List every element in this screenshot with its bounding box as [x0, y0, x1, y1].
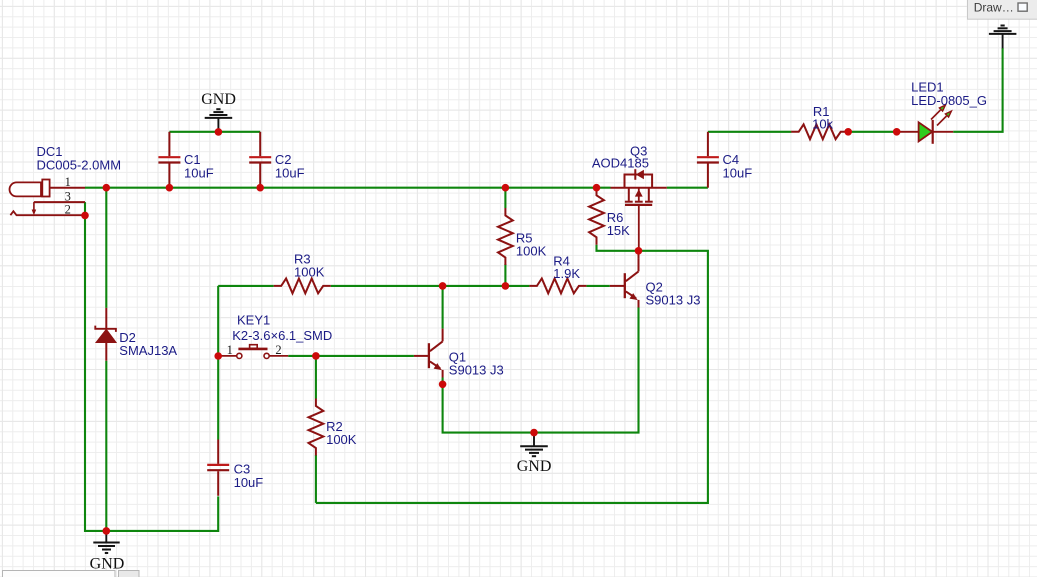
junction: LED anode: [893, 128, 901, 136]
wire: R5 top stub from rail: [504, 188, 506, 208]
junction: rail / C2: [256, 184, 264, 192]
wire: R6 bottom to gate node line: [316, 245, 708, 503]
wire: R3 to Q1 collector junction to R5 foot: [331, 285, 506, 287]
DC1 pin 3: [34, 201, 85, 203]
resistor R3: [274, 279, 331, 294]
svg-text:10uF: 10uF: [234, 475, 264, 490]
wire: Q3 drain to C4: [667, 187, 708, 189]
junction: rail / D2 branch: [103, 184, 111, 192]
capacitor C2: [249, 132, 271, 188]
connector DC1 DC005-2.0MM: [10, 180, 86, 216]
wire: R3 left vertical to KEY1 pin1: [217, 286, 219, 356]
diode D2 SMAJ13A (TVS): [95, 308, 116, 361]
wire: R5 junction to R4: [505, 285, 529, 287]
UI: bottom-left input box: [3, 571, 116, 577]
svg-text:S9013 J3: S9013 J3: [646, 293, 701, 308]
UI: Draw... palette top-right: [968, 0, 1037, 19]
svg-text:1.9K: 1.9K: [553, 266, 580, 281]
capacitor C4: [697, 132, 719, 188]
DC1 pin 2 with spring contact: [10, 211, 85, 215]
Q3 channel plates and gate: [628, 188, 630, 201]
junction: rail / R6: [593, 184, 601, 192]
resistor R2: [309, 399, 324, 456]
svg-text:AOD4185: AOD4185: [592, 155, 649, 170]
wire: R4 to Q2 base: [586, 285, 609, 287]
wire: D2 branch from rail (above D2): [105, 188, 107, 308]
pushbutton KEY1 K2-3.6x6.1_SMD: [219, 345, 288, 359]
ground GND center (Q1/Q2 emitters): [520, 433, 548, 457]
Q3 body diode: [634, 169, 636, 180]
wire: Q1 collector up to R3 line: [442, 286, 444, 329]
svg-text:10uF: 10uF: [275, 165, 305, 180]
svg-text:S9013 J3: S9013 J3: [449, 362, 504, 377]
Q3 gate pin down to node: [638, 205, 640, 251]
DC1 switch arrow: [33, 202, 35, 210]
junction: R2 top: [312, 352, 320, 360]
junction: top ground: [215, 128, 223, 136]
wire: Q2 collector pin up to gate node (red pin): [638, 251, 640, 259]
junction: DC1 pin2: [81, 212, 89, 220]
svg-text:2: 2: [65, 202, 71, 216]
wire: D2 anode down to bottom ground junction: [105, 361, 107, 531]
wire: +12V rail from DC1 pin1 to Q3 source: [85, 187, 611, 189]
resistor R1: [791, 124, 848, 139]
resistor R4: [529, 279, 586, 294]
junction: rail / R5: [502, 184, 510, 192]
junction: Q1 collector node: [439, 282, 447, 290]
resistor R5: [498, 208, 513, 265]
transistor Q3 AOD4185 (P-MOSFET): [611, 169, 667, 251]
ground GND bottom-left: [93, 531, 119, 553]
svg-text:2: 2: [275, 343, 281, 357]
resistor R6: [589, 188, 604, 245]
wire: KEY1 pin1 down to C3 top: [217, 356, 219, 440]
transistor Q2 (NPN S9013): [610, 259, 639, 308]
svg-text:15K: 15K: [607, 223, 630, 238]
svg-text:1: 1: [65, 175, 71, 189]
wire: R2 top stub from KEY1 line: [315, 356, 317, 399]
junction: gate node: [635, 247, 643, 255]
capacitor C3: [207, 440, 229, 496]
junction: R5 bottom: [502, 282, 510, 290]
svg-text:100K: 100K: [326, 432, 357, 447]
junction: bottom-left ground: [103, 527, 111, 535]
svg-text:SMAJ13A: SMAJ13A: [119, 343, 177, 358]
wire: R5 bottom to R3 line: [504, 264, 506, 286]
wire: KEY1 pin2 to R2 top junction to Q1 base: [288, 355, 414, 357]
junction: R1 right: [844, 128, 852, 136]
svg-text:10k: 10k: [812, 116, 833, 131]
svg-text:Draw…: Draw…: [974, 0, 1014, 14]
UI: bottom-left button: [119, 571, 140, 577]
svg-text:K2-3.6×6.1_SMD: K2-3.6×6.1_SMD: [232, 328, 332, 343]
svg-text:GND: GND: [201, 91, 236, 108]
junction: rail / C1: [166, 184, 174, 192]
ground GND top (inverted): [205, 109, 233, 132]
wire: LED cathode to top-right ground: [953, 48, 1002, 132]
wire: R3 line (left segment): [218, 285, 274, 287]
svg-text:DC005-2.0MM: DC005-2.0MM: [37, 158, 122, 173]
wire: C1-C2 top ground rail: [169, 131, 260, 133]
svg-text:1: 1: [227, 343, 233, 357]
svg-text:GND: GND: [517, 458, 552, 475]
svg-text:3: 3: [65, 189, 71, 203]
svg-text:KEY1: KEY1: [237, 312, 270, 327]
wire: bottom-left ground run to C3: [106, 496, 218, 531]
svg-text:100K: 100K: [294, 265, 325, 280]
junction: KEY1 pin1: [214, 352, 222, 360]
wire: LED line from C4 top to R1: [708, 131, 792, 133]
svg-text:10uF: 10uF: [184, 165, 214, 180]
wire: Q1 emitter down and across to center ground: [443, 307, 639, 432]
LED1 emission arrows: [931, 110, 941, 120]
wire: between R1 and LED anode: [848, 131, 897, 133]
capacitor C1: [158, 132, 180, 188]
ground top-right (inverted, unlabelled): [989, 26, 1017, 49]
LED LED1 LED-0805_G: [897, 105, 954, 144]
transistor Q1 (NPN S9013): [414, 329, 443, 378]
junction: center ground: [530, 429, 538, 437]
wire: R2 bottom stub: [315, 455, 317, 503]
wire: DC1 pin2 down-left loop to bottom ground: [84, 202, 86, 215]
DC1 pin 1: [50, 187, 85, 189]
svg-text:10uF: 10uF: [723, 166, 753, 181]
junction: Q1 emitter: [439, 381, 447, 389]
svg-text:LED-0805_G: LED-0805_G: [911, 93, 987, 108]
svg-text:100K: 100K: [516, 243, 547, 258]
